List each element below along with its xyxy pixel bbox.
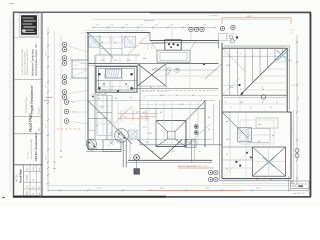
svg-text:(e) residence: (e) residence bbox=[209, 15, 218, 17]
svg-text:d1: d1 bbox=[143, 112, 145, 114]
svg-text:4'-0": 4'-0" bbox=[72, 102, 76, 104]
svg-text:c2: c2 bbox=[176, 95, 178, 97]
svg-text:k1: k1 bbox=[226, 154, 228, 156]
svg-text:q: q bbox=[130, 97, 131, 99]
svg-text:e1: e1 bbox=[208, 117, 210, 119]
svg-text:4'-0": 4'-0" bbox=[74, 65, 78, 67]
svg-text:02.20.04: 02.20.04 bbox=[27, 175, 29, 181]
svg-text:5'-2": 5'-2" bbox=[124, 111, 128, 113]
svg-text:4'-8": 4'-8" bbox=[292, 85, 296, 87]
svg-text:4:12: 4:12 bbox=[226, 65, 230, 67]
svg-text:g1: g1 bbox=[226, 121, 228, 123]
svg-text:Sometown, California 90000: Sometown, California 90000 bbox=[24, 52, 27, 75]
svg-text:n2: n2 bbox=[262, 89, 264, 91]
svg-text:9'-2": 9'-2" bbox=[46, 52, 48, 56]
svg-text:d: d bbox=[270, 54, 271, 56]
svg-text:e2: e2 bbox=[208, 129, 210, 131]
svg-text:4:12: 4:12 bbox=[145, 142, 149, 144]
svg-text:p: p bbox=[96, 125, 97, 127]
svg-text:t2: t2 bbox=[250, 106, 252, 109]
svg-text:g3: g3 bbox=[272, 135, 274, 137]
svg-text:d2: d2 bbox=[160, 112, 162, 114]
svg-text:tel 555.555.0100 fax 555.555.: tel 555.555.0100 fax 555.555.0101 bbox=[21, 49, 24, 75]
svg-text:a: a bbox=[224, 54, 225, 56]
svg-text:9'-6": 9'-6" bbox=[155, 25, 159, 27]
svg-text:b: b bbox=[240, 54, 241, 56]
svg-text:7: 7 bbox=[142, 41, 143, 43]
svg-text:9'-6": 9'-6" bbox=[203, 25, 207, 27]
svg-text:4:12: 4:12 bbox=[226, 139, 230, 141]
svg-text:c3: c3 bbox=[192, 95, 194, 97]
svg-text:4:12: 4:12 bbox=[100, 107, 104, 109]
svg-text:f3: f3 bbox=[276, 102, 278, 104]
svg-text:3'-1": 3'-1" bbox=[124, 116, 128, 118]
svg-text:4:12: 4:12 bbox=[166, 74, 170, 76]
svg-text:Scale: Scale bbox=[33, 166, 35, 170]
svg-text:4:12: 4:12 bbox=[101, 60, 105, 62]
svg-text:n: n bbox=[240, 89, 241, 91]
svg-text:4:12: 4:12 bbox=[127, 60, 131, 62]
svg-text:12345 Anywhere Street Ste 100: 12345 Anywhere Street Ste 100 bbox=[26, 50, 29, 75]
svg-text:4:12: 4:12 bbox=[114, 60, 118, 62]
svg-text:h1: h1 bbox=[152, 151, 154, 153]
svg-text:c1: c1 bbox=[143, 97, 145, 99]
svg-text:A-7.0: A-7.0 bbox=[14, 175, 18, 182]
svg-text:s2: s2 bbox=[190, 141, 192, 143]
svg-text:k2: k2 bbox=[226, 169, 228, 171]
svg-text:h2: h2 bbox=[172, 151, 174, 153]
svg-text:4'-8": 4'-8" bbox=[136, 111, 140, 113]
svg-text:Revision: —: Revision: — bbox=[28, 149, 30, 159]
svg-text:16'-8": 16'-8" bbox=[256, 188, 261, 190]
svg-text:4:12: 4:12 bbox=[143, 127, 147, 129]
svg-text:scale: 1/4" = 1'-0": scale: 1/4" = 1'-0" bbox=[293, 193, 306, 195]
svg-text:1500 Hillside Drive: 1500 Hillside Drive bbox=[26, 95, 28, 113]
svg-text:b2: b2 bbox=[115, 98, 117, 100]
svg-text:j2: j2 bbox=[109, 133, 111, 135]
svg-text:Hyatt Residence: Hyatt Residence bbox=[30, 86, 34, 114]
svg-text:3'-6": 3'-6" bbox=[72, 112, 76, 114]
svg-text:4:12: 4:12 bbox=[180, 104, 184, 106]
svg-text:4:12: 4:12 bbox=[176, 69, 180, 71]
svg-text:project north: project north bbox=[144, 19, 154, 22]
svg-text:t1: t1 bbox=[230, 106, 232, 109]
svg-text:j1: j1 bbox=[109, 121, 111, 123]
svg-text:a1: a1 bbox=[101, 42, 103, 44]
svg-text:9'-2": 9'-2" bbox=[46, 84, 48, 88]
svg-text:1/4": 1/4" bbox=[33, 178, 35, 181]
svg-text:34'-0": 34'-0" bbox=[247, 16, 252, 18]
svg-text:0309: 0309 bbox=[27, 191, 29, 195]
svg-text:f2: f2 bbox=[262, 102, 264, 104]
svg-text:22'-6": 22'-6" bbox=[298, 95, 300, 100]
svg-text:m2: m2 bbox=[270, 179, 273, 181]
svg-text:Project:: Project: bbox=[38, 107, 41, 114]
svg-text:Issue Date: 02.20.2004: Issue Date: 02.20.2004 bbox=[30, 139, 33, 159]
svg-text:9'-6": 9'-6" bbox=[96, 25, 100, 27]
svg-text:4:12: 4:12 bbox=[160, 95, 164, 97]
svg-text:ROOF PLAN SCALE: 1/4" = 1'-0: ROOF PLAN SCALE: 1/4" = 1'-0" bbox=[178, 165, 208, 168]
svg-text:Title:: Title: bbox=[38, 127, 41, 132]
svg-text:9'-6": 9'-6" bbox=[110, 25, 114, 27]
svg-text:16'-8": 16'-8" bbox=[205, 188, 210, 190]
svg-text:4:12: 4:12 bbox=[155, 68, 159, 70]
svg-text:t3: t3 bbox=[270, 106, 272, 109]
svg-text:Roof Plan: Roof Plan bbox=[28, 113, 33, 132]
svg-text:Rev: Rev bbox=[39, 168, 41, 171]
svg-text:x: x bbox=[169, 136, 170, 138]
svg-text:9'-6": 9'-6" bbox=[186, 25, 190, 27]
svg-text:9'-2": 9'-2" bbox=[46, 124, 48, 128]
svg-text:9'-6": 9'-6" bbox=[170, 25, 174, 27]
svg-text:Roof Plan: Roof Plan bbox=[19, 169, 23, 183]
svg-text:b1: b1 bbox=[98, 98, 100, 100]
svg-text:Architecture Construction: Architecture Construction bbox=[32, 48, 35, 76]
svg-text:attic: attic bbox=[258, 123, 261, 126]
svg-text:Not For Construction: Not For Construction bbox=[34, 132, 38, 160]
svg-text:9'-2": 9'-2" bbox=[46, 156, 48, 160]
svg-text:9'-6": 9'-6" bbox=[125, 25, 129, 27]
svg-text:16'-8": 16'-8" bbox=[160, 188, 165, 190]
svg-text:Jon Kampano Assoc, Inc.: Jon Kampano Assoc, Inc. bbox=[34, 43, 38, 76]
svg-text:g2: g2 bbox=[258, 141, 260, 143]
svg-text:4:12: 4:12 bbox=[148, 133, 152, 135]
svg-text:24'-0": 24'-0" bbox=[97, 188, 102, 190]
svg-text:f1: f1 bbox=[225, 102, 227, 104]
svg-text:9'-6": 9'-6" bbox=[140, 25, 144, 27]
svg-text:Ck: Ck bbox=[39, 186, 41, 188]
svg-text:6:12: 6:12 bbox=[230, 87, 234, 89]
svg-text:a2: a2 bbox=[114, 42, 116, 44]
svg-text:v: v bbox=[167, 142, 168, 144]
svg-text:Job: Job bbox=[27, 186, 29, 189]
svg-text:x1: x1 bbox=[150, 87, 152, 89]
svg-text:4:12: 4:12 bbox=[240, 102, 244, 104]
svg-text:1'-6": 1'-6" bbox=[290, 33, 294, 35]
